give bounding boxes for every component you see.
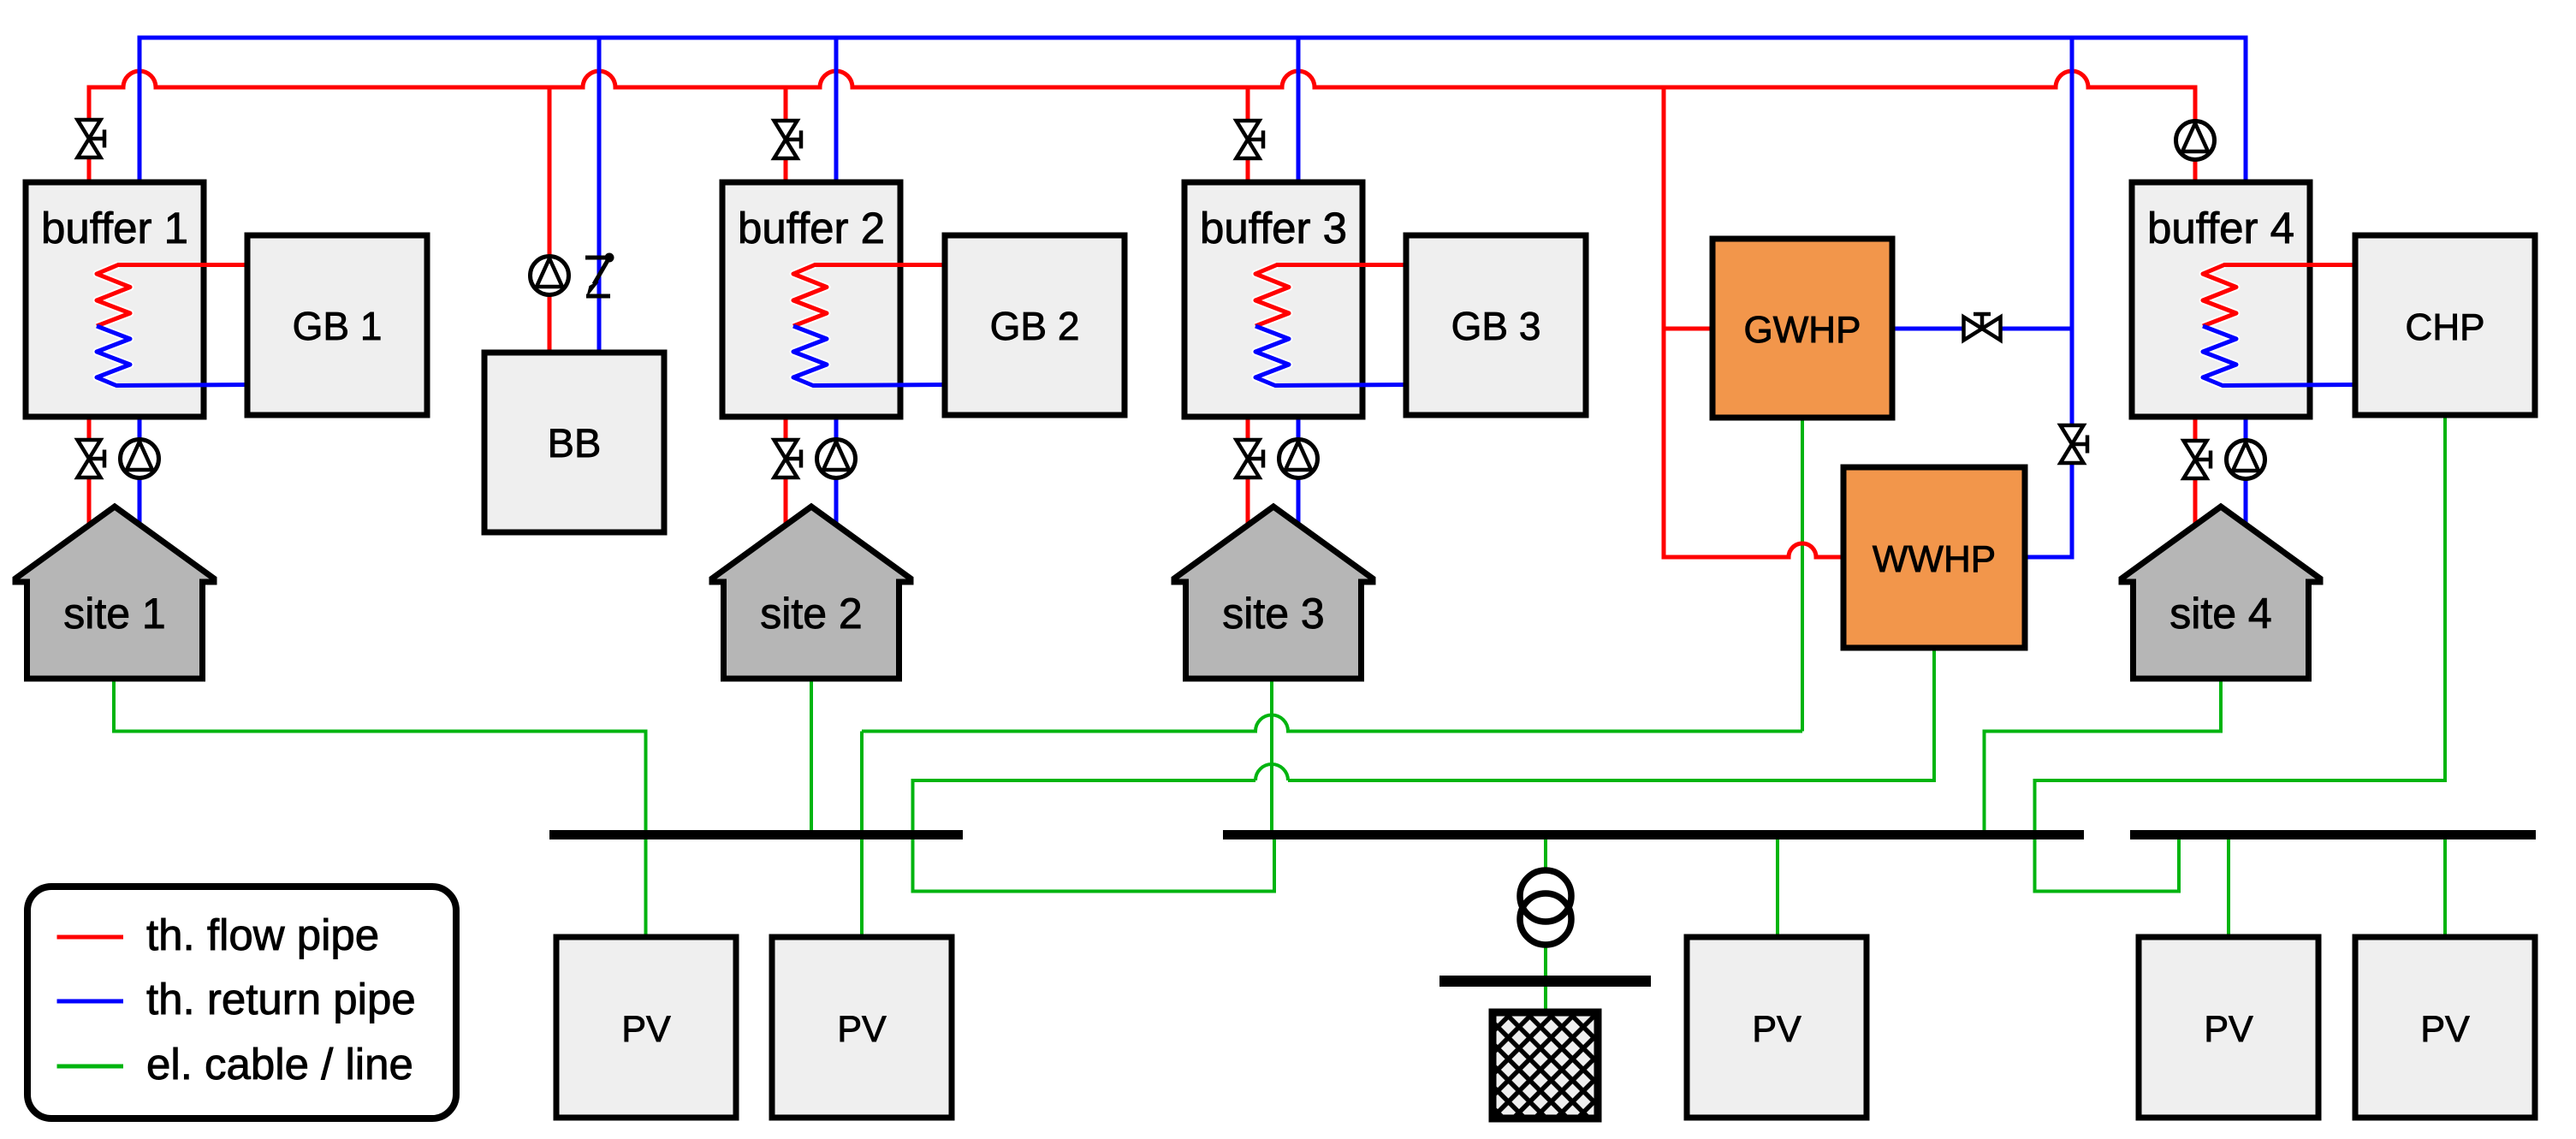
svg-text:PV: PV (837, 1009, 887, 1050)
svg-text:buffer 4: buffer 4 (2147, 204, 2294, 252)
svg-text:site 3: site 3 (1222, 590, 1325, 638)
svg-text:WWHP: WWHP (1873, 538, 1996, 580)
svg-text:GWHP: GWHP (1744, 309, 1861, 351)
svg-text:PV: PV (621, 1009, 671, 1050)
svg-text:site 4: site 4 (2169, 590, 2272, 638)
svg-text:CHP: CHP (2406, 306, 2485, 348)
svg-text:BB: BB (548, 420, 602, 466)
svg-text:PV: PV (1752, 1009, 1801, 1050)
svg-text:th. flow pipe: th. flow pipe (146, 911, 379, 959)
svg-text:PV: PV (2204, 1009, 2253, 1050)
svg-text:buffer 3: buffer 3 (1200, 204, 1347, 252)
svg-text:GB 2: GB 2 (990, 304, 1080, 348)
svg-text:site 2: site 2 (760, 590, 863, 638)
svg-text:buffer 2: buffer 2 (738, 204, 885, 252)
svg-text:buffer 1: buffer 1 (41, 204, 188, 252)
svg-text:site 1: site 1 (63, 590, 166, 638)
svg-text:GB 3: GB 3 (1451, 304, 1541, 348)
svg-text:el. cable / line: el. cable / line (146, 1040, 413, 1089)
svg-text:GB 1: GB 1 (293, 304, 383, 348)
svg-text:PV: PV (2420, 1009, 2470, 1050)
svg-text:th. return pipe: th. return pipe (146, 975, 416, 1023)
